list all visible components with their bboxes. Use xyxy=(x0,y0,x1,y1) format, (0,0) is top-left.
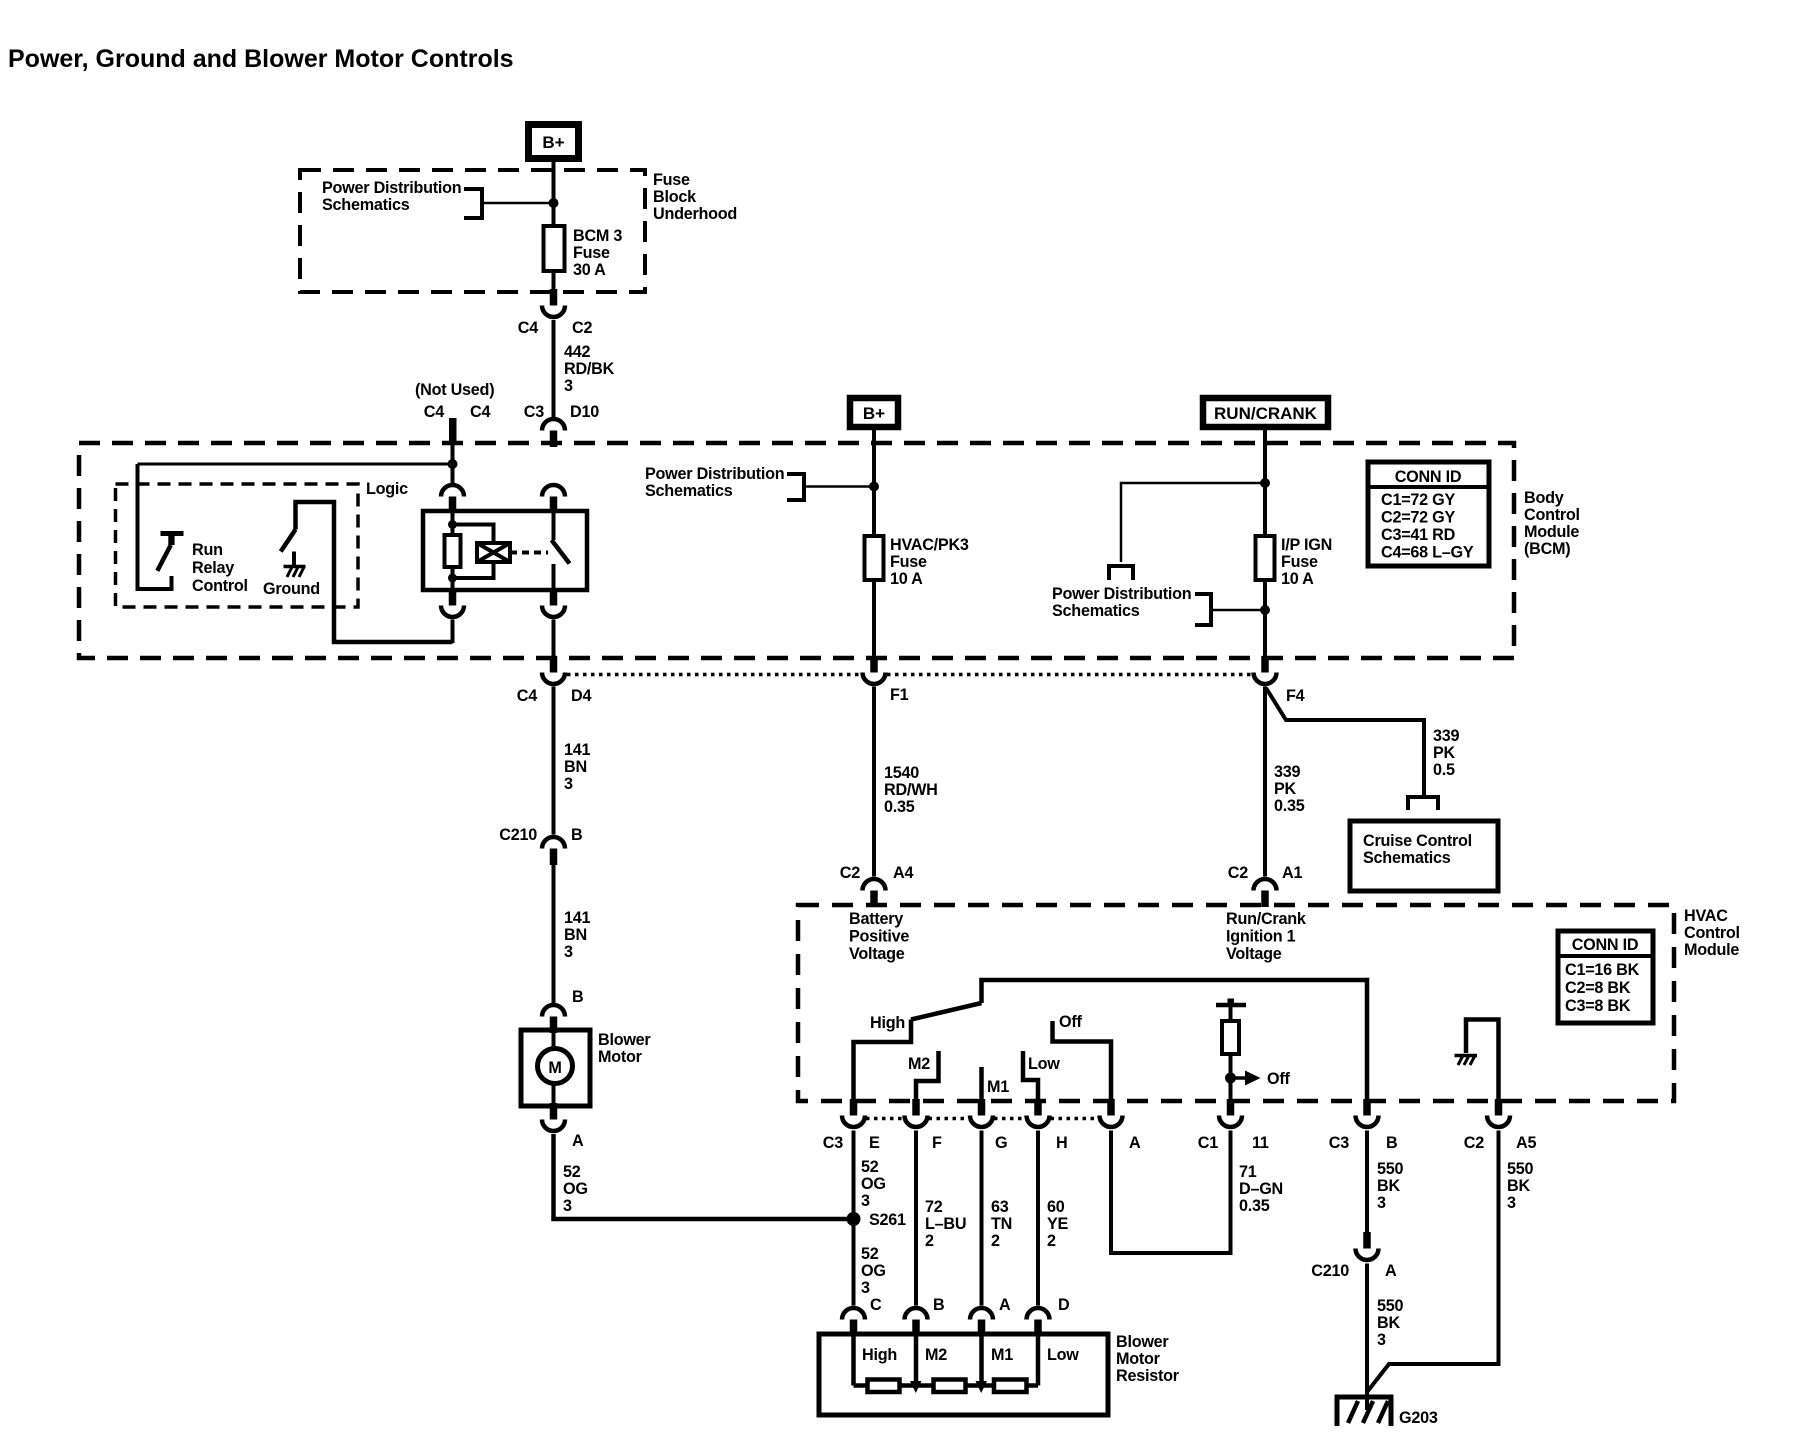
svg-text:C4: C4 xyxy=(470,403,490,421)
actuation dashed link xyxy=(510,551,548,555)
svg-text:D–GN: D–GN xyxy=(1239,1180,1283,1198)
svg-text:Run/Crank: Run/Crank xyxy=(1226,910,1307,928)
connector F1 (BCM out) xyxy=(863,656,886,684)
relay coil wire xyxy=(451,511,455,535)
svg-text:(Not Used): (Not Used) xyxy=(415,381,494,399)
svg-text:B: B xyxy=(572,988,583,1006)
node tap M2 xyxy=(910,1381,922,1393)
svg-text:High: High xyxy=(862,1346,897,1364)
svg-text:A: A xyxy=(1385,1262,1397,1280)
wire 72 L-BU 2 (F to resistor B) xyxy=(914,1131,918,1306)
svg-text:A1: A1 xyxy=(1282,864,1302,882)
wire 52 OG 3 (blower to S261) xyxy=(554,1134,854,1219)
svg-text:Power Distribution: Power Distribution xyxy=(645,465,784,483)
relay switch blade xyxy=(552,511,556,540)
wire resistor feed Low xyxy=(1036,1334,1041,1386)
off-page bracket: Power Distribution Schematics (fuse block) xyxy=(464,189,482,218)
connector body dotted line (C3) xyxy=(866,1117,904,1121)
node coil top xyxy=(448,520,457,529)
svg-text:C4: C4 xyxy=(518,319,538,337)
svg-text:BN: BN xyxy=(564,926,587,944)
svg-text:F1: F1 xyxy=(890,686,909,704)
svg-text:Underhood: Underhood xyxy=(653,205,737,223)
svg-text:Body: Body xyxy=(1524,489,1564,507)
HVAC control module dashed box xyxy=(798,905,1674,1101)
svg-text:BCM 3: BCM 3 xyxy=(573,227,622,245)
connector C210 pin A xyxy=(1356,1232,1379,1260)
svg-text:Control: Control xyxy=(192,577,248,595)
fuse I/P IGN 10A xyxy=(1256,536,1275,580)
svg-text:M: M xyxy=(548,1059,561,1077)
node junction on B+ feed xyxy=(549,198,559,208)
svg-text:Schematics: Schematics xyxy=(1363,849,1451,867)
ground (HVAC internal) xyxy=(1466,1020,1499,1100)
relay K box xyxy=(423,511,587,590)
svg-text:B: B xyxy=(933,1296,944,1314)
svg-text:C3: C3 xyxy=(524,403,544,421)
svg-text:M1: M1 xyxy=(991,1346,1013,1364)
svg-text:Battery: Battery xyxy=(849,910,903,928)
connector C3 pin E xyxy=(842,1099,865,1127)
wire 71 D-GN 0.35 (A to 11 loop) xyxy=(1111,1131,1231,1254)
blower switch wiper blade xyxy=(911,1003,982,1020)
connector resistor pin C xyxy=(842,1308,865,1336)
connector blower motor pin A xyxy=(542,1103,565,1131)
svg-text:Ground: Ground xyxy=(263,580,320,598)
wire switch out to D4 xyxy=(552,620,556,657)
svg-text:C2=8 BK: C2=8 BK xyxy=(1565,979,1631,997)
blower switch common wire xyxy=(982,980,1368,1099)
svg-text:C2: C2 xyxy=(1464,1134,1484,1152)
svg-text:M2: M2 xyxy=(908,1055,930,1073)
svg-text:C210: C210 xyxy=(1311,1262,1349,1280)
connector (relay switch in) xyxy=(542,485,565,513)
svg-text:Schematics: Schematics xyxy=(645,482,733,500)
svg-text:550: 550 xyxy=(1377,1160,1404,1178)
svg-text:0.35: 0.35 xyxy=(884,798,915,816)
node junction run/crank xyxy=(1260,478,1270,488)
svg-text:60: 60 xyxy=(1047,1198,1065,1216)
svg-text:D: D xyxy=(1058,1296,1070,1314)
svg-text:Off: Off xyxy=(1267,1070,1290,1088)
svg-text:52: 52 xyxy=(563,1163,581,1181)
svg-text:A: A xyxy=(572,1132,584,1150)
connector C3 pin B xyxy=(1356,1099,1379,1127)
connector (relay switch out) xyxy=(542,589,565,617)
off-page bracket (cruise) xyxy=(1408,797,1438,810)
wire B+ to fuse BCM3 xyxy=(552,162,556,290)
connector C3 pin H xyxy=(1027,1099,1050,1127)
wire C4 pin to logic xyxy=(451,443,455,483)
node coil bottom xyxy=(448,574,457,583)
svg-text:Logic: Logic xyxy=(366,480,408,498)
svg-text:3: 3 xyxy=(564,377,573,395)
svg-text:0.35: 0.35 xyxy=(1274,797,1305,815)
fuse BCM 3 30A xyxy=(544,226,565,271)
relay solenoid element xyxy=(477,543,510,562)
svg-text:OG: OG xyxy=(563,1180,588,1198)
connector C1 pin 11 xyxy=(1219,1099,1242,1127)
svg-text:B+: B+ xyxy=(863,404,885,423)
wire logic feed horizontal xyxy=(138,463,453,466)
off-page bracket: Power Distribution Schematics (BCM B+) xyxy=(787,474,804,500)
svg-text:PK: PK xyxy=(1274,780,1297,798)
svg-text:CONN ID: CONN ID xyxy=(1572,936,1639,954)
svg-text:3: 3 xyxy=(564,943,573,961)
svg-text:Control: Control xyxy=(1524,506,1580,524)
svg-text:Run: Run xyxy=(192,541,223,559)
svg-text:550: 550 xyxy=(1377,1297,1404,1315)
svg-text:141: 141 xyxy=(564,909,591,927)
wire branch to bracket (left of fuse) xyxy=(1121,483,1265,562)
connector C3 pin G xyxy=(970,1099,993,1127)
svg-text:Fuse: Fuse xyxy=(1281,553,1318,571)
svg-text:C4=68 L–GY: C4=68 L–GY xyxy=(1381,544,1474,562)
wire 442 RD/BK 3 xyxy=(552,320,556,417)
blower motor resistor box xyxy=(819,1334,1108,1415)
svg-text:C1: C1 xyxy=(1198,1134,1218,1152)
node splice S261 xyxy=(847,1212,861,1226)
switch icon to ground xyxy=(296,502,453,642)
svg-text:3: 3 xyxy=(1507,1194,1516,1212)
ground (logic internal) xyxy=(292,552,296,567)
svg-text:HVAC: HVAC xyxy=(1684,907,1728,925)
resistor element 2 xyxy=(934,1380,966,1393)
connector body dotted line xyxy=(567,673,861,677)
node tap M1 xyxy=(976,1381,988,1393)
wire resistor feed High xyxy=(851,1334,856,1386)
wire coil return xyxy=(451,620,455,644)
svg-text:High: High xyxy=(870,1014,905,1032)
svg-text:BN: BN xyxy=(564,758,587,776)
svg-text:B: B xyxy=(1386,1134,1397,1152)
connector resistor pin D xyxy=(1027,1308,1050,1336)
power symbol B+ (BCM) xyxy=(850,398,898,427)
wire 550 BK 3 (B to C210) xyxy=(1365,1131,1369,1233)
svg-text:C: C xyxy=(870,1296,882,1314)
connector C2 pin A5 xyxy=(1487,1099,1510,1127)
svg-text:Off: Off xyxy=(1059,1013,1082,1031)
svg-text:Power Distribution: Power Distribution xyxy=(1052,585,1191,603)
cruise control schematics box xyxy=(1350,821,1498,891)
contact M2 xyxy=(916,1051,939,1099)
svg-text:M2: M2 xyxy=(925,1346,947,1364)
svg-text:TN: TN xyxy=(991,1215,1012,1233)
svg-text:RD/WH: RD/WH xyxy=(884,781,938,799)
svg-text:BK: BK xyxy=(1507,1177,1530,1195)
contact High xyxy=(854,1020,912,1100)
wire to power distribution bracket xyxy=(482,202,554,205)
svg-text:Resistor: Resistor xyxy=(1116,1367,1180,1385)
connector (relay coil in) xyxy=(441,485,464,513)
wire coil bypass loop xyxy=(453,525,494,544)
body control module dashed box xyxy=(79,443,1514,658)
arrow to Off xyxy=(1231,1076,1248,1080)
wire B+ to HVAC/PK3 fuse xyxy=(872,430,876,656)
wire resistor chain xyxy=(854,1383,1039,1388)
svg-text:Blower: Blower xyxy=(1116,1333,1169,1351)
node junction logic feed xyxy=(448,459,458,469)
svg-text:3: 3 xyxy=(861,1192,870,1210)
svg-text:F4: F4 xyxy=(1286,687,1305,705)
svg-text:H: H xyxy=(1056,1134,1067,1152)
connector F4 (BCM out) xyxy=(1254,656,1277,684)
power symbol B+ (top) xyxy=(529,125,579,159)
node junction B+ feed xyxy=(869,482,879,492)
svg-text:F: F xyxy=(932,1134,942,1152)
svg-text:BK: BK xyxy=(1377,1177,1400,1195)
svg-text:B: B xyxy=(571,826,582,844)
CONN ID table (HVAC) xyxy=(1558,931,1653,1023)
svg-text:Fuse: Fuse xyxy=(573,244,610,262)
wire 339 PK 0.5 branch to cruise xyxy=(1266,688,1424,795)
svg-text:10 A: 10 A xyxy=(890,570,923,588)
svg-text:0.5: 0.5 xyxy=(1433,761,1455,779)
svg-text:Motor: Motor xyxy=(598,1048,643,1066)
svg-text:3: 3 xyxy=(1377,1331,1386,1349)
svg-text:A: A xyxy=(999,1296,1011,1314)
svg-text:Fuse: Fuse xyxy=(653,171,690,189)
CONN ID table (BCM) xyxy=(1368,462,1489,566)
svg-text:YE: YE xyxy=(1047,1215,1069,1233)
resistor element 1 xyxy=(868,1380,900,1393)
connector C3 pin F xyxy=(905,1099,928,1127)
contact Low xyxy=(1023,1051,1038,1099)
svg-text:72: 72 xyxy=(925,1198,943,1216)
connector C4/D4 (BCM out) xyxy=(542,656,565,684)
svg-text:OG: OG xyxy=(861,1175,886,1193)
svg-text:I/P IGN: I/P IGN xyxy=(1281,536,1332,554)
svg-text:2: 2 xyxy=(925,1232,934,1250)
svg-text:3: 3 xyxy=(861,1279,870,1297)
svg-text:S261: S261 xyxy=(869,1211,906,1229)
svg-text:A5: A5 xyxy=(1516,1134,1536,1152)
svg-text:A: A xyxy=(1129,1134,1141,1152)
connector resistor pin A xyxy=(970,1308,993,1336)
svg-text:C3=41 RD: C3=41 RD xyxy=(1381,526,1456,544)
svg-text:Block: Block xyxy=(653,188,697,206)
wire 339 PK 0.35 (F4 to A1) xyxy=(1263,687,1267,877)
svg-text:Ignition 1: Ignition 1 xyxy=(1226,928,1296,946)
connector resistor pin B xyxy=(905,1308,928,1336)
fuse HVAC/PK3 10A xyxy=(865,536,884,580)
svg-text:30 A: 30 A xyxy=(573,261,606,279)
svg-text:CONN ID: CONN ID xyxy=(1395,468,1462,486)
svg-text:52: 52 xyxy=(861,1245,879,1263)
wire 141 BN 3 (C210 to blower) xyxy=(552,865,556,1003)
svg-text:C2: C2 xyxy=(572,319,592,337)
svg-text:C3=8 BK: C3=8 BK xyxy=(1565,997,1631,1015)
node off tap xyxy=(1225,1073,1236,1084)
svg-text:0.35: 0.35 xyxy=(1239,1197,1270,1215)
svg-text:Power, Ground and Blower Motor: Power, Ground and Blower Motor Controls xyxy=(8,45,514,73)
svg-text:339: 339 xyxy=(1433,727,1460,745)
svg-text:C2=72 GY: C2=72 GY xyxy=(1381,509,1455,527)
svg-text:C1=72 GY: C1=72 GY xyxy=(1381,491,1455,509)
svg-text:RUN/CRANK: RUN/CRANK xyxy=(1214,404,1318,423)
svg-text:C3: C3 xyxy=(823,1134,843,1152)
svg-text:(BCM): (BCM) xyxy=(1524,540,1570,558)
pin stub C4 not used xyxy=(449,418,457,443)
svg-text:Low: Low xyxy=(1028,1055,1060,1073)
svg-text:Positive: Positive xyxy=(849,928,909,946)
svg-text:Blower: Blower xyxy=(598,1031,651,1049)
svg-text:52: 52 xyxy=(861,1158,879,1176)
logic dashed box xyxy=(116,484,359,607)
svg-text:C1=16 BK: C1=16 BK xyxy=(1565,961,1640,979)
resistor element 3 xyxy=(994,1380,1027,1393)
switch icon Run Relay Control xyxy=(161,531,184,536)
svg-text:C3: C3 xyxy=(1329,1134,1349,1152)
svg-text:Low: Low xyxy=(1047,1346,1079,1364)
wire 1540 RD/WH 0.35 (F1 to A4) xyxy=(872,687,876,877)
svg-text:Cruise Control: Cruise Control xyxy=(1363,832,1472,850)
svg-text:Voltage: Voltage xyxy=(1226,945,1282,963)
svg-text:C2: C2 xyxy=(840,864,860,882)
svg-text:3: 3 xyxy=(564,775,573,793)
svg-text:HVAC/PK3: HVAC/PK3 xyxy=(890,536,969,554)
svg-text:A4: A4 xyxy=(893,864,913,882)
svg-text:Control: Control xyxy=(1684,924,1740,942)
svg-text:Module: Module xyxy=(1524,523,1579,541)
svg-text:G: G xyxy=(995,1134,1007,1152)
svg-text:D10: D10 xyxy=(570,403,599,421)
svg-text:E: E xyxy=(869,1134,880,1152)
wire resistor feed M1 xyxy=(979,1334,984,1386)
wire 60 YE 2 (H to resistor D) xyxy=(1036,1131,1040,1306)
svg-text:339: 339 xyxy=(1274,763,1301,781)
wire 550 BK 3 (A5 to G203) xyxy=(1367,1131,1499,1393)
svg-text:550: 550 xyxy=(1507,1160,1534,1178)
off indicator resistor xyxy=(1222,1021,1239,1054)
fuse block underhood dashed box xyxy=(300,170,645,292)
svg-text:L–BU: L–BU xyxy=(925,1215,966,1233)
svg-text:71: 71 xyxy=(1239,1163,1257,1181)
blower motor M1 xyxy=(521,1030,590,1106)
svg-text:OG: OG xyxy=(861,1262,886,1280)
svg-text:Module: Module xyxy=(1684,941,1739,959)
off-page bracket: Power Distribution Schematics (ign) xyxy=(1195,594,1211,625)
svg-text:3: 3 xyxy=(563,1197,572,1215)
wire resistor feed M2 xyxy=(914,1334,919,1386)
wire 141 BN 3 (D4 to C210) xyxy=(552,687,556,835)
svg-text:Schematics: Schematics xyxy=(1052,602,1140,620)
wire 550 BK 3 (C210 to G203) xyxy=(1365,1264,1369,1400)
svg-text:RD/BK: RD/BK xyxy=(564,360,615,378)
node junction ign feed xyxy=(1260,605,1270,615)
connector (relay coil out) xyxy=(441,589,464,617)
ground G203 xyxy=(1365,1397,1369,1410)
svg-text:M1: M1 xyxy=(987,1078,1009,1096)
svg-text:B+: B+ xyxy=(542,133,564,152)
wire 63 TN 2 (G to resistor A) xyxy=(980,1131,984,1306)
svg-text:2: 2 xyxy=(1047,1232,1056,1250)
svg-text:Schematics: Schematics xyxy=(322,196,410,214)
svg-text:10 A: 10 A xyxy=(1281,570,1314,588)
off-page bracket (run/crank distribution) xyxy=(1109,566,1133,580)
svg-text:141: 141 xyxy=(564,741,591,759)
svg-text:Motor: Motor xyxy=(1116,1350,1161,1368)
svg-text:442: 442 xyxy=(564,343,591,361)
power symbol RUN/CRANK xyxy=(1203,398,1328,427)
svg-text:C4: C4 xyxy=(424,403,444,421)
svg-text:PK: PK xyxy=(1433,744,1456,762)
off indicator feed bar xyxy=(1216,1003,1246,1008)
svg-text:Relay: Relay xyxy=(192,559,234,577)
contact M1 xyxy=(979,1067,984,1099)
wire RUN/CRANK to I/P IGN fuse xyxy=(1263,430,1267,656)
svg-text:C210: C210 xyxy=(499,826,537,844)
svg-text:BK: BK xyxy=(1377,1314,1400,1332)
svg-text:C4: C4 xyxy=(517,687,537,705)
connector C4/C2 (fuse block output) xyxy=(542,289,565,317)
svg-text:Power Distribution: Power Distribution xyxy=(322,179,461,197)
svg-text:D4: D4 xyxy=(571,687,591,705)
svg-text:2: 2 xyxy=(991,1232,1000,1250)
wire run relay control branch xyxy=(138,464,172,589)
svg-text:3: 3 xyxy=(1377,1194,1386,1212)
relay coil resistor xyxy=(445,535,461,567)
svg-text:Voltage: Voltage xyxy=(849,945,905,963)
contact Off xyxy=(1053,1021,1112,1099)
svg-text:63: 63 xyxy=(991,1198,1009,1216)
svg-text:C2: C2 xyxy=(1228,864,1248,882)
svg-text:Fuse: Fuse xyxy=(890,553,927,571)
svg-text:1540: 1540 xyxy=(884,764,919,782)
svg-text:11: 11 xyxy=(1252,1134,1269,1152)
svg-text:G203: G203 xyxy=(1399,1409,1438,1427)
connector C3 pin A xyxy=(1100,1099,1123,1127)
wire 52 OG 3 (E to S261) xyxy=(852,1131,856,1306)
